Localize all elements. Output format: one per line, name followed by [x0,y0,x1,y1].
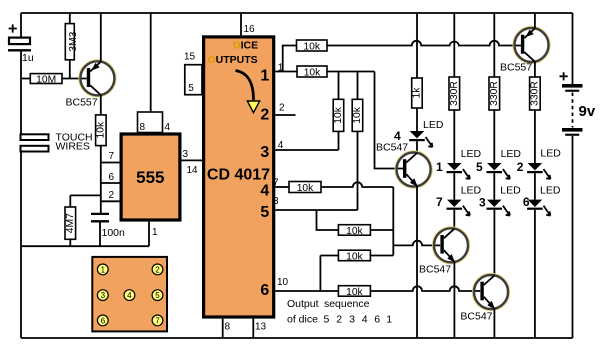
svg-text:3: 3 [260,144,269,161]
transistor Q1 BC557 (top left, PNP) [66,13,116,109]
svg-text:2: 2 [336,314,342,326]
wire bottom 0V rail [21,337,573,339]
svg-text:6: 6 [101,316,106,325]
svg-text:3: 3 [183,149,189,160]
wire pin2 stub [275,114,295,116]
svg-text:10k: 10k [352,106,363,123]
LED 6 [523,185,561,216]
wire LED3 to Q4 collector [493,210,495,276]
svg-text:10: 10 [277,277,289,288]
wire 1k to LED4 [416,108,418,131]
wire Q5 collector to 330R C [534,62,536,77]
resistor 3M3 [65,13,79,79]
svg-text:LED: LED [461,148,482,160]
dice layout box [92,257,167,332]
svg-text:LED: LED [540,185,561,197]
svg-text:of dice: of dice [287,314,318,326]
svg-text:10k: 10k [333,106,344,123]
svg-text:10k: 10k [96,121,107,138]
transistor Q3 BC547 (NPN) [419,227,469,275]
svg-text:10k: 10k [303,41,320,52]
pip 4 [124,290,135,301]
wire 555 pin 6 stub [101,182,120,184]
resistor 10k (row b) [338,250,370,262]
wire top +9V rail [21,12,573,14]
svg-text:1: 1 [152,227,158,238]
svg-text:10k: 10k [346,251,363,262]
svg-text:5: 5 [188,83,194,94]
resistor 10k (pin1 lower) [297,66,327,78]
svg-text:BC547: BC547 [460,311,492,323]
svg-text:BC547: BC547 [376,142,408,154]
wire 555 pin 7 stub [101,162,120,164]
svg-text:2: 2 [260,107,269,124]
svg-text:2: 2 [517,160,524,174]
svg-text:10k: 10k [297,183,314,194]
svg-text:4: 4 [362,314,368,326]
svg-text:7: 7 [155,316,160,325]
wire 4017 pin 16 supply [240,13,242,35]
wire drops to vertical 10k pair [339,72,358,100]
wire 330R B to LED5 [493,110,495,163]
wire pin1 row to corner [327,71,375,73]
LED 7 [436,185,482,216]
svg-text:DICE: DICE [233,39,258,51]
wire left rail lower segment [20,152,22,339]
svg-text:2: 2 [155,265,160,274]
transistor Q5 BC557 (top right, PNP) [500,13,550,74]
wire 555 supply (pins 8,4) [150,13,152,112]
wire Q2 emitter to 0V [416,186,418,338]
IC 555 [121,134,180,220]
wire Q3 emitter to 0V [453,262,455,338]
pip 1 [97,264,108,275]
LED 1 [436,148,482,179]
wire Q1 collector [100,95,102,115]
svg-text:OUTPUTS: OUTPUTS [208,54,258,66]
wire LED1 to LED7 [453,173,455,199]
yellow arrowhead triangle [247,101,259,113]
wire 555 input node vertical [100,146,102,213]
svg-text:3: 3 [349,314,355,326]
wire pin4 row [275,149,338,151]
svg-text:1: 1 [260,68,269,85]
pip 2 [152,264,163,275]
label of dice sequence [287,314,392,326]
svg-text:5: 5 [155,291,160,300]
wire vertical-a down to pin4 row [338,131,340,150]
svg-text:1: 1 [101,265,106,274]
wire pin10 row to BC547#3 base (hops) [370,286,480,291]
wire row-b left corner [320,256,338,292]
wire to BC547#2 base (hop) [393,241,440,246]
svg-text:BC557: BC557 [66,97,98,109]
wire Q4 emitter to 0V [493,309,495,338]
svg-text:BC547: BC547 [419,264,451,276]
svg-text:7: 7 [436,195,443,209]
svg-text:2: 2 [279,102,285,113]
resistor 4M7 [65,195,76,246]
svg-text:1u: 1u [22,52,34,64]
resistor 10k (pin10) [338,286,370,298]
svg-text:CD 4017: CD 4017 [207,166,270,183]
wire pin10 row [275,290,338,292]
pip 3 [97,290,108,301]
wire pin7 row with hop to corner [321,182,393,187]
svg-text:Output sequence: Output sequence [287,298,370,310]
IC CD4017 [204,37,274,317]
wire 555 pin 1 [148,222,150,247]
pip 6 [97,315,108,326]
wire ground net under 555 [21,245,149,247]
svg-text:LED: LED [501,148,522,160]
pip 5 [152,290,163,301]
svg-text:WIRES: WIRES [56,141,90,153]
transistor Q4 BC547 (NPN) [460,274,509,323]
svg-text:9v: 9v [579,103,596,120]
capacitor 100n [91,214,125,246]
svg-text:10k: 10k [346,287,363,298]
resistor 10k (Q1 collector to 555) [96,115,107,146]
svg-text:14: 14 [187,165,199,176]
wire battery dashed middle [572,93,574,128]
resistor 10k (row a) [338,225,370,237]
wire reset loop pins 15/5 [185,65,202,95]
svg-text:6: 6 [374,314,380,326]
svg-text:10k: 10k [346,226,363,237]
svg-text:5: 5 [476,160,483,174]
dice output numbers inside 4017 [260,68,269,300]
svg-text:3: 3 [479,196,486,210]
wire LED6 to 0V [534,210,536,338]
svg-text:6: 6 [109,172,115,183]
svg-text:4: 4 [127,291,132,300]
svg-text:10k: 10k [304,67,321,78]
curved sequence arrow [236,71,254,101]
wire 4017 pin 13 [252,319,254,338]
svg-text:LED: LED [423,119,444,131]
wire to BC547#1 base [375,72,404,169]
svg-text:1: 1 [436,160,443,174]
wire left rail upper segment [20,13,22,37]
wire 330R A to LED1 [453,110,455,163]
wire LED5 to LED3 [493,173,495,199]
wire row-b to bus [370,255,393,257]
resistor 10k (vertical b) [352,99,363,131]
svg-text:1: 1 [386,314,392,326]
resistor 10k (pin7) [289,182,321,194]
LED 4 [394,119,444,147]
wire vertical-b down to pin3 row [357,131,359,210]
wire 330R column A top [453,13,455,77]
svg-text:330R: 330R [489,81,500,106]
wire 330R column B top [493,13,495,77]
svg-text:2: 2 [109,190,115,201]
svg-text:3M3: 3M3 [68,31,79,51]
wire 555 pin3 to CD4017 pin14 [182,159,203,161]
resistor 10k (vertical a) [333,99,344,131]
resistor 330R (A) [449,77,460,110]
transistor Q2 BC547 (NPN) [376,142,432,188]
svg-text:330R: 330R [530,81,541,106]
wire 4M7 to pin2 node [70,194,101,196]
resistor 330R (B) [489,77,500,110]
wire 1k column top [416,13,418,78]
555 pins 8/4 box [138,112,171,133]
resistor 330R (C) [530,77,541,110]
wire 555 pin 2 stub [101,200,120,202]
LED 2 [517,148,561,180]
wire 4017 pin 8 [222,319,224,338]
battery plus [560,72,568,80]
svg-text:LED: LED [500,185,521,197]
capacitor 1u [8,24,34,72]
wire pin3 row [275,209,357,211]
wire base rail to BC557 right (with hops) [327,41,523,46]
svg-text:5: 5 [260,204,269,221]
resistor 10M [21,74,87,86]
svg-text:8: 8 [225,322,231,333]
svg-text:7: 7 [109,151,115,162]
wire left rail to touch wires [20,52,22,135]
wire 330R C to LED2 [534,110,536,163]
svg-text:3: 3 [101,291,106,300]
svg-text:10M: 10M [36,74,56,85]
svg-text:4: 4 [165,122,171,133]
svg-text:16: 16 [244,24,256,35]
svg-text:4M7: 4M7 [65,213,76,233]
wire LED2 to LED6 [534,173,536,199]
wire pin1 stub and branch [275,46,297,72]
battery cell 1 [562,84,583,92]
svg-text:4: 4 [260,183,269,200]
resistor 1k [412,78,423,108]
svg-text:8: 8 [140,122,146,133]
svg-text:BC557: BC557 [500,62,532,74]
wire battery bottom [572,136,574,338]
battery cell 2 [562,128,583,136]
pip 7 [152,315,163,326]
svg-text:3: 3 [273,196,279,207]
svg-text:5: 5 [324,314,330,326]
wire collector bus vertical [392,187,394,256]
svg-text:1k: 1k [412,87,423,99]
svg-text:555: 555 [136,168,164,187]
touch wires plates [21,132,93,153]
wire row-a to bus [370,229,393,231]
LED 5 [476,148,521,179]
wire LED4 to Q2 collector [416,141,418,153]
svg-text:330R: 330R [449,81,460,106]
wire pin7 stub [275,186,289,188]
wire LED7 to Q3 collector [453,210,455,229]
wire pin3 drop [317,210,339,230]
svg-text:6: 6 [523,195,530,209]
LED 3 [479,185,521,216]
svg-text:15: 15 [184,52,196,63]
resistor 10k (pin1 upper) [297,40,328,52]
svg-text:13: 13 [255,322,267,333]
svg-text:100n: 100n [102,227,126,239]
wire battery top [572,13,574,84]
svg-text:6: 6 [260,282,269,299]
svg-text:LED: LED [540,148,561,160]
